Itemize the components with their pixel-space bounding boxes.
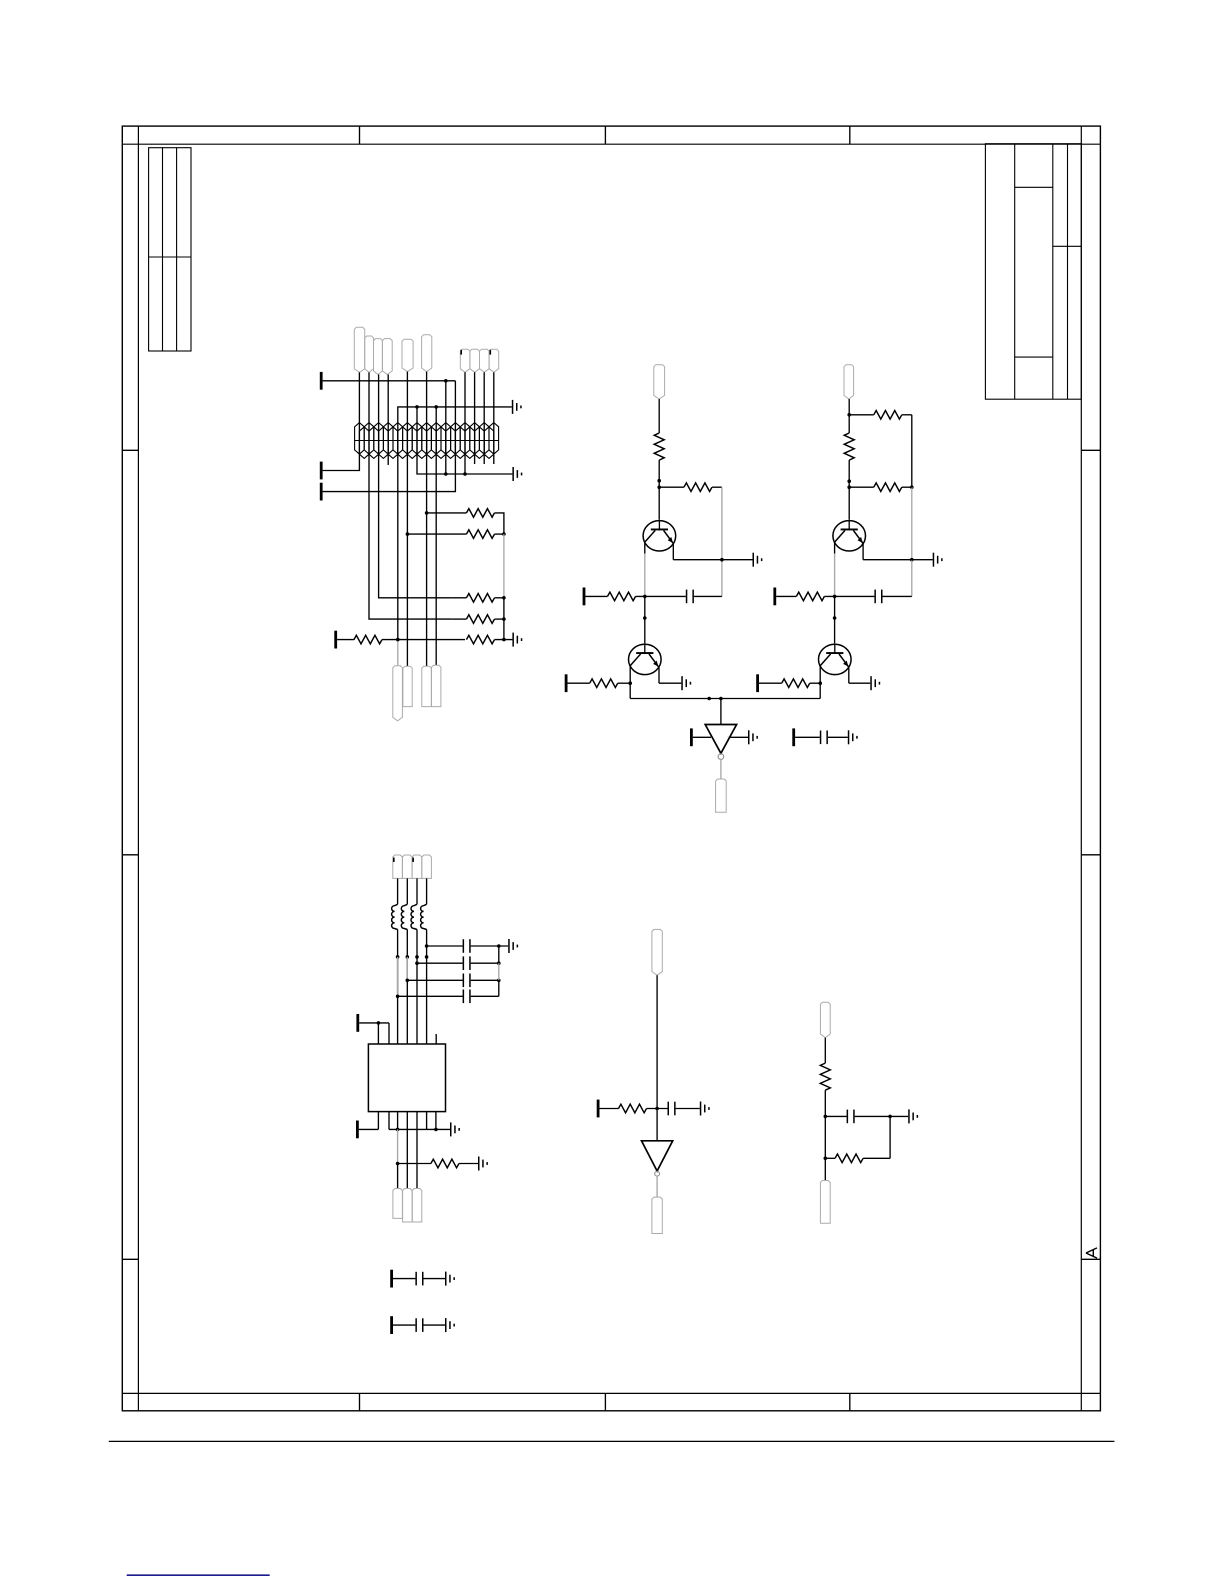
- port P9: [690, 728, 693, 746]
- pin mark in flag N18: [393, 858, 395, 863]
- wire U1 pin10 down: [397, 1112, 399, 1130]
- junction E node top: [824, 1115, 828, 1119]
- wire pin5 down: [406, 456, 408, 666]
- wire C8 row: [398, 995, 463, 997]
- wire C7 row: [407, 979, 462, 981]
- wire P4 to R5: [337, 639, 354, 641]
- net label flag N28: [820, 1181, 830, 1224]
- zone tick bottom border: [849, 1393, 851, 1410]
- wire R16 to ground: [459, 1163, 478, 1165]
- port P10: [792, 728, 795, 746]
- wire R12 to corner: [902, 414, 912, 416]
- net label flag N21: [422, 855, 432, 878]
- wire inductor down: [406, 930, 408, 981]
- net label flag N19: [402, 855, 412, 878]
- wire R12 corner down: [911, 415, 913, 487]
- revision table: [149, 148, 191, 351]
- inductor L1: [392, 904, 398, 929]
- junction Q3 base node b: [847, 485, 851, 489]
- wire pin10 to flag: [397, 1164, 399, 1189]
- pin mark in flag N10: [490, 350, 492, 355]
- inductor L4: [421, 904, 427, 929]
- inverter U3 bubble: [718, 754, 724, 760]
- wire right bus gray b: [911, 560, 913, 597]
- wire P11 bus: [359, 1022, 389, 1024]
- wire U4 output gray: [656, 1176, 658, 1197]
- wire flag to connector pin: [464, 372, 466, 456]
- resistor R16: [431, 1159, 459, 1168]
- ground symbol Q2: [681, 676, 691, 690]
- resistor R2: [466, 530, 494, 539]
- bus gray segment: [503, 534, 505, 598]
- wire C10 right: [855, 1115, 909, 1117]
- port P3: [320, 483, 323, 501]
- wire P1 drop to pin10: [454, 381, 456, 456]
- resistor R6: [466, 635, 494, 644]
- net label flag N4: [382, 339, 392, 375]
- capacitor C10: [847, 1110, 855, 1124]
- junction bus R2: [502, 532, 506, 536]
- wire N27 to R18: [824, 1038, 826, 1064]
- ground symbol C11: [445, 1272, 455, 1286]
- zone tick top border: [604, 126, 606, 144]
- transistor Q2: [629, 644, 662, 674]
- wire Q3 collector down: [834, 542, 836, 554]
- ground symbol U3: [748, 730, 758, 744]
- junction pin4 node: [396, 638, 400, 642]
- wire collector bus: [630, 698, 820, 700]
- transistor Q3: [833, 521, 866, 551]
- capacitor C12: [415, 1318, 423, 1332]
- resistor R3: [466, 594, 494, 603]
- junction P1 wire pin9: [444, 379, 448, 383]
- transistor Q1: [643, 521, 676, 551]
- wire w2 gray: [406, 957, 408, 980]
- wire P6 to R10: [568, 682, 590, 684]
- wire P10 to C4: [795, 736, 820, 738]
- wire R19 lead: [825, 1157, 835, 1159]
- ground symbol Q4: [870, 676, 880, 690]
- wire Q3 collector gray: [834, 554, 836, 597]
- junction L3 wire mark: [415, 955, 419, 959]
- wire w1 gray: [397, 957, 399, 996]
- port P1: [320, 372, 323, 390]
- port P13: [597, 1100, 600, 1118]
- wire pin4 to flag (gray): [397, 640, 399, 666]
- wire R1 right to bus: [495, 513, 504, 534]
- wire Q1 emitter to ground: [673, 559, 752, 561]
- capacitor C7: [463, 974, 471, 988]
- junction upper gnd pin6: [415, 405, 419, 409]
- wire upper ground net: [398, 407, 512, 456]
- junction bus R6: [502, 638, 506, 642]
- wire flag to connector pin: [378, 375, 380, 457]
- wire R8 to corner: [712, 486, 722, 488]
- wire R8 corner down (gray): [721, 487, 723, 596]
- zone tick left border: [122, 449, 138, 451]
- resistor R12: [874, 411, 902, 420]
- net label flag N13: [422, 666, 432, 706]
- ground symbol C12: [445, 1318, 455, 1332]
- wire R5 to pin4 node: [382, 639, 465, 641]
- wire P5 to R9: [585, 595, 607, 597]
- connector J1 body: [355, 423, 499, 459]
- net label flag N22: [393, 1189, 403, 1219]
- resistor R5: [354, 635, 382, 644]
- wire U1 pin8 down: [377, 1112, 379, 1130]
- junction N16 node: [847, 413, 851, 417]
- port P12: [356, 1121, 359, 1139]
- wire C1 to corner: [694, 595, 722, 597]
- border frame inner crossed lines: [122, 126, 1100, 1411]
- wire R2 right: [495, 533, 504, 535]
- junction bus C6: [497, 961, 501, 965]
- wire N16 down: [848, 399, 850, 415]
- inverter U3 triangle: [705, 725, 736, 754]
- junction bus a: [707, 697, 711, 701]
- junction lower gnd pin11: [463, 472, 467, 476]
- resistor R19: [835, 1154, 863, 1163]
- port P5: [583, 588, 586, 606]
- junction D node: [655, 1107, 659, 1111]
- wire node down to R11: [848, 415, 850, 433]
- wire w3 to IC: [416, 963, 418, 1044]
- capacitor C1: [686, 590, 694, 604]
- wire C3 to corner: [883, 595, 912, 597]
- wire P9 to U3: [693, 736, 711, 738]
- junction right bus R13: [910, 485, 914, 489]
- wire C12 to ground: [424, 1324, 446, 1326]
- cap bus gray: [498, 963, 500, 980]
- zone tick bottom border: [359, 1393, 361, 1410]
- wire R6 right: [495, 639, 513, 641]
- wire right drop: [889, 1116, 891, 1158]
- wire port P3 to pin10: [323, 456, 456, 492]
- wire U1 pin13 down: [426, 1112, 428, 1130]
- junction Q4 base node b: [833, 616, 837, 620]
- port P14: [390, 1270, 393, 1288]
- wire Q3 emitter down: [862, 544, 864, 560]
- wire flag to inductor: [406, 878, 408, 904]
- port P6: [565, 674, 568, 692]
- junction upper gnd pin8: [434, 405, 438, 409]
- wire pin11 down: [464, 456, 466, 474]
- ground symbol R6: [512, 633, 522, 647]
- wire Q4 emitter down: [848, 667, 850, 683]
- wire Q4 emitter to ground: [849, 682, 871, 684]
- cap bus black a: [498, 946, 500, 963]
- net label flag N14: [432, 665, 441, 706]
- wire N15 to R7: [658, 399, 660, 433]
- wire C5 row: [427, 945, 463, 947]
- resistor R9: [608, 592, 636, 601]
- wire node down to Q2: [644, 596, 646, 643]
- wire pin8 down: [435, 456, 437, 665]
- wire Q2 collector down: [629, 666, 631, 699]
- junction C7 tap: [406, 979, 410, 983]
- junction R2 tap: [406, 532, 410, 536]
- capacitor C8: [463, 990, 471, 1004]
- junction Q3 base node a: [847, 479, 851, 483]
- zone tick top border: [359, 126, 361, 144]
- IC U1 body: [368, 1044, 445, 1112]
- ground symbol upper: [512, 400, 522, 414]
- ground symbol lower: [512, 467, 522, 481]
- pin mark in flag N20: [412, 858, 414, 863]
- net label flag N8: [470, 349, 480, 372]
- wire R10 to Q2 collector: [618, 682, 630, 684]
- wire P14 to C11: [393, 1278, 415, 1280]
- wire flag to connector pin: [483, 372, 485, 456]
- stub pin14: [493, 456, 495, 464]
- wire node to C10: [825, 1115, 846, 1117]
- wire U1 pin11 down: [406, 1112, 408, 1189]
- ground symbol C4: [848, 730, 858, 744]
- zone tick left border: [122, 1258, 138, 1260]
- wire U1 pin12 down: [416, 1112, 418, 1189]
- resistor R15: [782, 679, 810, 688]
- resistor R1: [466, 509, 494, 518]
- junction Q1 base node b: [657, 485, 661, 489]
- wire R4 left lead: [452, 618, 467, 620]
- wire R1 left: [427, 512, 467, 514]
- junction R16 node: [396, 1162, 400, 1166]
- wire node to R12: [849, 414, 874, 416]
- net label flag N20: [412, 855, 422, 878]
- junction P11 pin1: [377, 1021, 381, 1025]
- junction L4 wire mark: [425, 955, 429, 959]
- wire Q1 collector gray: [644, 554, 646, 597]
- wire inductor down: [416, 930, 418, 964]
- resistor R13: [874, 483, 902, 492]
- resistor R17: [619, 1104, 647, 1113]
- junction L1 wire mark: [396, 955, 400, 959]
- wire Q1 emitter down: [672, 544, 674, 560]
- capacitor C3: [874, 590, 882, 604]
- junction bus R3: [502, 596, 506, 600]
- stub pin12: [474, 456, 476, 464]
- wire flag to connector pin: [368, 372, 370, 456]
- resistor R14: [796, 592, 824, 601]
- net label flag N3: [374, 339, 383, 375]
- net label flag N26: [652, 1197, 662, 1233]
- junction C5 tap: [425, 944, 429, 948]
- capacitor C5: [463, 939, 471, 953]
- port P4: [334, 631, 337, 649]
- wire flag to connector pin: [406, 372, 408, 456]
- inverter U4 bubble: [655, 1171, 660, 1176]
- wire pin2 to R3 row: [379, 456, 452, 598]
- wire Q2 emitter to ground: [659, 682, 681, 684]
- wire flag to connector pin: [493, 372, 495, 456]
- wire R3 left lead: [452, 597, 467, 599]
- net label flag N6: [422, 335, 432, 372]
- junction C10 right: [888, 1115, 892, 1119]
- capacitor C6: [463, 956, 471, 970]
- stub pin3: [387, 456, 389, 465]
- net label flag N18: [393, 855, 403, 878]
- resistor R11: [844, 433, 854, 460]
- wire inductor down: [397, 930, 399, 997]
- zone tick right border: [1081, 1258, 1100, 1260]
- wire R11 to Q3 base node: [848, 460, 850, 520]
- bus segment R3-R5: [503, 598, 505, 640]
- capacitor C4: [820, 731, 828, 745]
- wire U3 to ground: [729, 736, 748, 738]
- wire flag to connector pin: [358, 372, 360, 456]
- wire P7 to R14: [776, 595, 796, 597]
- junction Q4 collector port: [818, 681, 822, 685]
- wire R4 right: [495, 618, 504, 620]
- wire w1 to IC: [397, 996, 399, 1044]
- wire P13 to R17: [600, 1108, 619, 1110]
- wire right bus gray: [911, 487, 913, 560]
- net label flag N17: [716, 779, 727, 812]
- junction Q2 base node: [643, 595, 647, 599]
- wire C9 to ground: [676, 1108, 700, 1110]
- wire R3 right: [495, 597, 504, 599]
- wire flag to connector pin: [426, 372, 428, 456]
- wire R17 to node: [647, 1108, 668, 1110]
- wire C5 to bus: [471, 945, 509, 947]
- port P15: [390, 1316, 393, 1334]
- wire base node to R13: [849, 486, 874, 488]
- wire pin9 down: [445, 456, 447, 474]
- junction bus R4: [502, 617, 506, 621]
- junction C6 tap: [415, 961, 419, 965]
- wire pin1 to R4 row: [369, 456, 452, 619]
- net label flag N25: [652, 929, 662, 975]
- wire U3 output gray: [720, 759, 722, 779]
- inverter U4 triangle: [642, 1141, 673, 1171]
- wire pin1 drop: [377, 1023, 379, 1044]
- net label flag N7: [460, 349, 470, 372]
- footer hyperlink underline: [127, 1574, 270, 1576]
- footer rule: [109, 1440, 1115, 1442]
- net label flag N12: [403, 666, 412, 706]
- wire Q4 collector down: [819, 666, 821, 699]
- ground symbol C10: [908, 1109, 918, 1123]
- resistor R7: [654, 433, 664, 460]
- wire Q1 collector down: [644, 542, 646, 554]
- wire lower ground net: [417, 456, 512, 474]
- junction C8 tap: [396, 995, 400, 999]
- port P2: [320, 462, 323, 480]
- wire C7 to bus: [471, 979, 499, 981]
- wire pin8 to port P12: [359, 1128, 379, 1130]
- net label flag N23: [403, 1189, 413, 1223]
- wire P8 to R15: [759, 682, 782, 684]
- inductor L2: [401, 904, 407, 929]
- wire Q2 emitter down: [658, 667, 660, 683]
- wire flag to inductor: [416, 878, 418, 904]
- wire w4 to IC: [426, 946, 428, 1044]
- wire flag to inductor: [397, 878, 399, 904]
- ground symbol R16: [478, 1157, 488, 1171]
- resistor R8: [684, 483, 712, 492]
- stub pin13: [483, 456, 485, 464]
- wire bottom gnd bus: [389, 1128, 450, 1130]
- wire flag to connector pin: [387, 375, 389, 457]
- junction Q2 collector port: [628, 681, 632, 685]
- wire C11 to ground: [424, 1278, 446, 1280]
- junction gnd bus pin10: [396, 1128, 400, 1132]
- zone tick left border: [122, 854, 138, 856]
- wire R14 to node: [824, 595, 874, 597]
- wire R13 right: [902, 486, 912, 488]
- junction gnd bus pin14: [434, 1128, 438, 1132]
- net label flag N27: [820, 1002, 830, 1037]
- junction Q1 base node a: [657, 479, 661, 483]
- junction Q2 base node b: [643, 616, 647, 620]
- port P8: [756, 674, 759, 692]
- wire Q3 emitter to ground: [863, 559, 933, 561]
- net label flag N15: [654, 365, 665, 399]
- cap bus black b: [498, 980, 500, 996]
- transistor Q4: [819, 644, 852, 674]
- pin mark in flag N7: [460, 350, 462, 355]
- junction R1 tap: [425, 511, 429, 515]
- zone tick right border: [1081, 449, 1100, 451]
- wire U1 pin14 down: [435, 1112, 437, 1130]
- port P7: [773, 588, 776, 606]
- wire pin8 up: [435, 407, 437, 456]
- wire C6 to bus: [471, 962, 499, 964]
- wire P15 to C12: [393, 1324, 415, 1326]
- zone tick right border: [1081, 854, 1100, 856]
- inductor L3: [411, 904, 417, 929]
- wire R15 to Q4 collector: [810, 682, 820, 684]
- ground symbol U1: [450, 1122, 460, 1136]
- junction bus C7: [497, 979, 501, 983]
- resistor R4: [466, 615, 494, 624]
- junction lower gnd pin9: [444, 472, 448, 476]
- wire flag to connector pin: [474, 372, 476, 456]
- title block: [985, 144, 1081, 400]
- wire base node to R8: [659, 486, 684, 488]
- port P11: [356, 1014, 359, 1032]
- wire pin7 down: [426, 456, 428, 666]
- wire R18 down: [824, 1090, 826, 1158]
- capacitor C9: [668, 1102, 676, 1116]
- zone tick top border: [849, 126, 851, 144]
- wire node down to Q4: [834, 596, 836, 643]
- wire C8 to bus: [471, 995, 499, 997]
- net label flag N24: [412, 1189, 422, 1223]
- wire pin2 drop: [388, 1023, 390, 1044]
- wire inductor down: [426, 930, 428, 947]
- wire P1 drop to pin9: [445, 381, 447, 456]
- wire R2 left: [407, 533, 466, 535]
- net label flag N5: [402, 339, 413, 371]
- wire U1 pin9 down: [388, 1112, 390, 1130]
- ground symbol C9: [700, 1102, 710, 1116]
- stub mark U1 pin7 top: [435, 1034, 437, 1035]
- resistor R10: [590, 679, 618, 688]
- wire R9 to node: [636, 595, 686, 597]
- wire C6 row: [417, 962, 463, 964]
- wire R7 to Q1 base node: [658, 460, 660, 520]
- net label flag N2: [365, 336, 374, 372]
- junction bus b: [719, 697, 723, 701]
- wire pin4 down: [397, 456, 399, 640]
- junction right bus gnd: [910, 558, 914, 562]
- junction E node bottom: [824, 1157, 828, 1161]
- net label flag N16: [844, 365, 854, 399]
- junction Q4 base node: [833, 595, 837, 599]
- wire flag to inductor: [426, 878, 428, 904]
- stub U1 top right pin: [435, 1036, 437, 1044]
